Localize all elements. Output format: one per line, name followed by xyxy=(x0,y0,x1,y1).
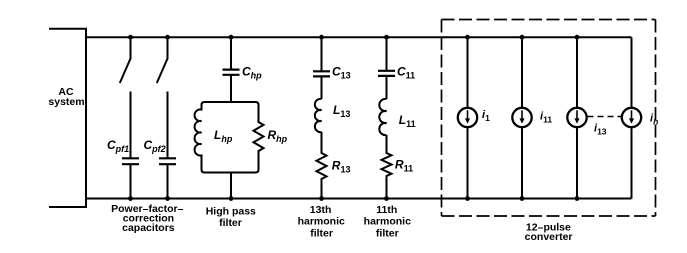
svg-text:harmonic: harmonic xyxy=(298,215,345,227)
svg-text:filter: filter xyxy=(219,217,242,229)
svg-text:filter: filter xyxy=(376,227,399,239)
svg-text:High pass: High pass xyxy=(206,206,256,218)
svg-text:capacitors: capacitors xyxy=(122,222,175,234)
svg-text:11th: 11th xyxy=(376,204,397,216)
svg-text:system: system xyxy=(48,96,84,108)
svg-text:13th: 13th xyxy=(310,204,332,216)
svg-text:harmonic: harmonic xyxy=(364,215,411,227)
svg-text:filter: filter xyxy=(310,227,333,239)
svg-text:converter: converter xyxy=(525,231,573,243)
